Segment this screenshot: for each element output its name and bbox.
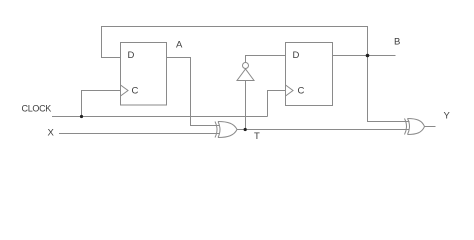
svg-text:B: B bbox=[394, 36, 400, 47]
svg-text:D: D bbox=[293, 50, 300, 61]
svg-text:T: T bbox=[254, 131, 260, 142]
svg-text:CLOCK: CLOCK bbox=[22, 104, 52, 114]
svg-text:X: X bbox=[48, 128, 55, 139]
svg-text:D: D bbox=[128, 50, 135, 61]
svg-text:C: C bbox=[132, 86, 139, 97]
svg-text:A: A bbox=[176, 39, 183, 50]
svg-text:C: C bbox=[298, 86, 305, 97]
svg-text:Y: Y bbox=[444, 111, 451, 122]
